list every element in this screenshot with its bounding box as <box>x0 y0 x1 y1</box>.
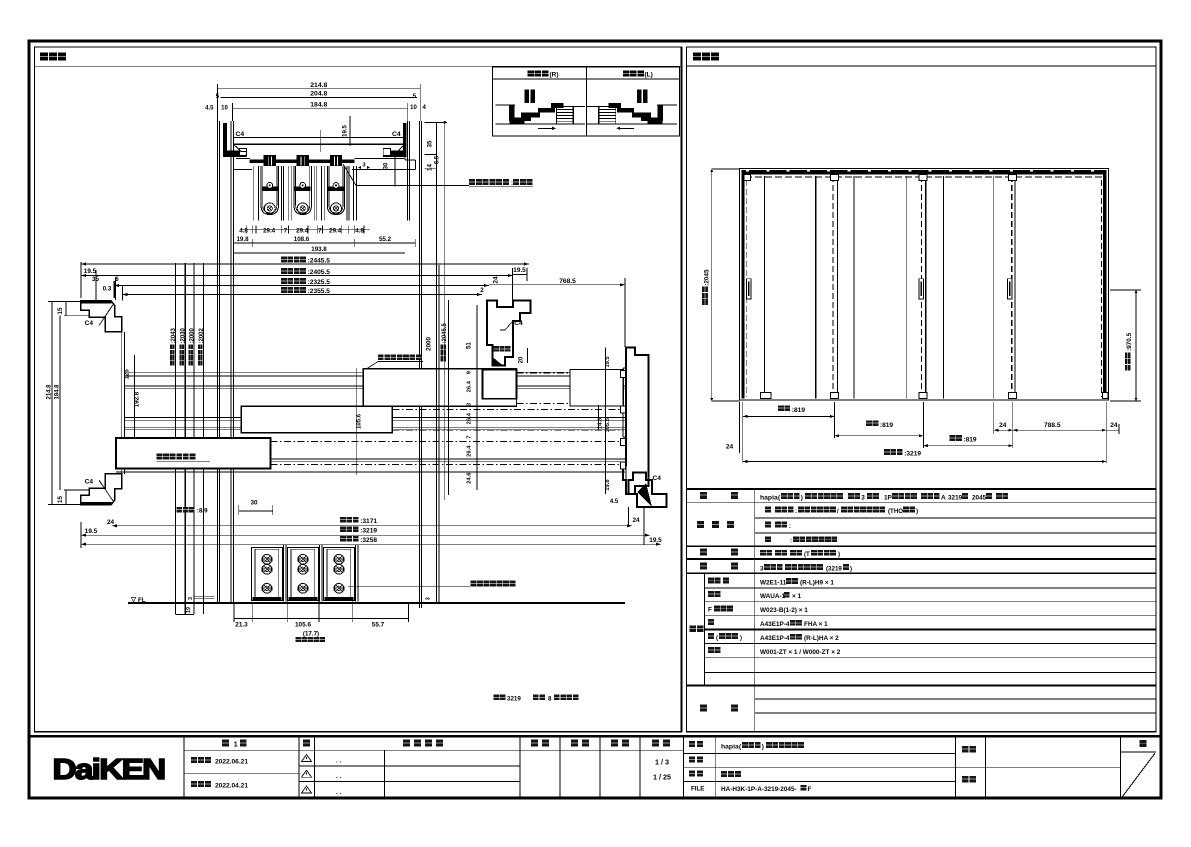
svg-text:788.5: 788.5 <box>1044 422 1061 429</box>
svg-text:105.6: 105.6 <box>357 413 363 429</box>
svg-text:F: F <box>708 607 712 614</box>
svg-text:21.3: 21.3 <box>235 622 248 629</box>
dim 30 inside top assembly <box>394 151 396 186</box>
long dim 2405.5 <box>81 275 513 277</box>
svg-text::8.9: :8.9 <box>197 508 208 515</box>
svg-text:DaiKEN: DaiKEN <box>52 753 164 785</box>
svg-text:24: 24 <box>107 519 115 526</box>
hanger symbol <box>525 89 530 103</box>
svg-text:19.5: 19.5 <box>513 267 526 274</box>
hanger roller unit <box>264 155 276 166</box>
svg-text::2002: :2002 <box>199 327 205 343</box>
svg-text:204.8: 204.8 <box>310 91 327 98</box>
svg-text:(L): (L) <box>645 72 653 79</box>
hanger roller unit <box>297 155 309 166</box>
svg-text:5: 5 <box>413 93 417 100</box>
svg-text:): ) <box>740 635 742 641</box>
center vertical reference line <box>356 368 358 475</box>
dim 15 lower with extensions <box>48 503 81 505</box>
dimension row 193.8 <box>234 252 406 254</box>
svg-text::2445.5: :2445.5 <box>308 257 331 264</box>
spec table label column divider <box>754 489 756 732</box>
svg-text:10: 10 <box>221 106 228 112</box>
door handles <box>746 279 751 299</box>
centerline top assembly <box>319 130 321 152</box>
track lines (plan view rails) <box>125 371 626 373</box>
front view right dimension 引手高:970.5 <box>1135 290 1137 401</box>
long dim 2325.5 <box>114 285 489 287</box>
svg-text::: : <box>511 181 513 187</box>
svg-text:193.8: 193.8 <box>311 246 327 253</box>
svg-text:× 1: × 1 <box>792 593 802 600</box>
detail sketch rail profile <box>495 104 515 106</box>
door frame left thick bar <box>742 170 745 398</box>
title block top separator (thick) <box>29 735 1161 737</box>
svg-text::2355.5: :2355.5 <box>308 288 331 295</box>
label 引手部キャップ leader <box>157 454 163 460</box>
svg-text:3: 3 <box>760 565 764 572</box>
door panel top edges (section hairlines) <box>252 166 254 221</box>
svg-text:hapia: hapia <box>760 494 778 501</box>
svg-text:105.5: 105.5 <box>605 417 611 432</box>
svg-text:30: 30 <box>250 499 258 506</box>
svg-text:26.4: 26.4 <box>467 412 473 424</box>
dim row 幅:819 (2) <box>835 435 924 437</box>
svg-text:24: 24 <box>632 517 640 524</box>
top dimension 184.8 <box>232 107 407 109</box>
svg-text:(: ( <box>716 635 718 641</box>
detail sketch rail profile <box>657 104 677 106</box>
svg-text:19.5: 19.5 <box>649 537 662 544</box>
bottom-right jamb piece with C4 <box>628 472 666 506</box>
担当 label <box>962 776 968 782</box>
svg-text:19.8: 19.8 <box>605 479 611 491</box>
svg-text::2045: :2045 <box>704 269 711 286</box>
svg-text::2030: :2030 <box>180 327 186 343</box>
label 部材 <box>700 563 707 570</box>
svg-text:2: 2 <box>480 287 484 294</box>
svg-text:7: 7 <box>318 227 322 234</box>
right mullion receiving jamb <box>623 347 648 494</box>
dim row 内外幅:3219 <box>743 461 1107 463</box>
dim row 幅:819 (3) <box>923 445 1012 447</box>
wall lines left of top assembly <box>216 121 218 603</box>
svg-text:A43E1P-4: A43E1P-4 <box>760 621 790 628</box>
svg-text:3219: 3219 <box>948 494 963 501</box>
svg-text:F: F <box>808 786 812 793</box>
svg-text:24.6: 24.6 <box>467 472 473 484</box>
spec table outer and row lines <box>687 488 1157 490</box>
label 備考 <box>700 705 707 712</box>
svg-text:184.8: 184.8 <box>310 102 327 109</box>
svg-text:FL: FL <box>138 597 146 604</box>
name rows: 名称/品番/図名/FILE <box>684 753 956 755</box>
改訂履歴 header <box>403 740 410 747</box>
panel 1 hidden continuation dash-dot <box>516 372 623 374</box>
panel 1 handle cap recess <box>483 370 517 399</box>
svg-text:2000: 2000 <box>426 337 433 351</box>
vertical dim lines with rotated height labels <box>175 263 177 614</box>
svg-text::819: :819 <box>963 437 977 444</box>
件名 label <box>962 746 968 752</box>
right mid jamb piece (method jamb with C4) <box>487 300 530 365</box>
arrow tips on long dims <box>81 262 86 265</box>
svg-text:3: 3 <box>426 597 432 600</box>
svg-text:6.5: 6.5 <box>435 155 441 164</box>
svg-text:768.5: 768.5 <box>559 278 576 285</box>
dim 15 upper with extensions <box>48 301 81 303</box>
svg-text:HA-H3K-1P-A-3219-2045-: HA-H3K-1P-A-3219-2045- <box>721 786 797 793</box>
guide caps bottom <box>761 393 772 399</box>
svg-text::2000: :2000 <box>189 327 195 343</box>
top dimension 204.8 <box>221 97 417 99</box>
svg-text:▽: ▽ <box>130 597 137 604</box>
svg-text:(R-L)HA × 2: (R-L)HA × 2 <box>804 635 839 642</box>
svg-text:FILE: FILE <box>691 786 704 793</box>
svg-text:19.5: 19.5 <box>605 355 611 367</box>
svg-text:3: 3 <box>861 494 865 501</box>
top assembly dimension row 4.8/29.4/7/29.4/7/29.4/4.8 <box>246 226 248 234</box>
svg-text:5: 5 <box>216 93 220 100</box>
svg-text:6: 6 <box>115 276 119 283</box>
svg-text:24: 24 <box>726 443 734 450</box>
note ※幅は3219用の場合を示す <box>493 695 499 701</box>
floor line with FL mark <box>128 602 625 604</box>
content 仕上げ 扉框 row <box>765 522 771 528</box>
svg-text:(17.7): (17.7) <box>303 631 319 638</box>
front view bottom dimension rows <box>742 402 744 463</box>
svg-text:4.5: 4.5 <box>205 106 214 112</box>
door panel vertical edges <box>763 176 765 399</box>
rotated label 枠外高さ:2043 <box>170 361 175 366</box>
long dim 内外幅:3219 <box>81 534 650 536</box>
rotated label 取付高:2030 <box>179 361 184 366</box>
svg-text:2022.04.21: 2022.04.21 <box>215 783 248 790</box>
svg-text:29.4: 29.4 <box>263 227 276 234</box>
改訂日 2022.04.21 <box>191 781 197 787</box>
guide caps top <box>744 175 751 181</box>
spec table sub column divider <box>704 573 706 685</box>
small dim 30 <box>239 510 273 512</box>
arrow ticks on front view dims <box>743 415 748 418</box>
svg-text:(THO: (THO <box>888 508 903 515</box>
svg-text::2045.5: :2045.5 <box>442 322 448 343</box>
svg-text::819: :819 <box>880 422 894 429</box>
svg-text:4.8: 4.8 <box>239 227 248 234</box>
svg-text:4.5: 4.5 <box>610 499 619 505</box>
図名 content: 三面図 <box>721 771 727 777</box>
hanger roller unit <box>330 155 342 166</box>
svg-text::819: :819 <box>792 407 806 414</box>
svg-text:): ) <box>762 743 764 750</box>
改訂履歴 row lines and divider <box>314 765 520 767</box>
hidden track dashed line <box>745 176 1103 178</box>
panel 3 hidden continuation <box>271 441 624 443</box>
svg-text:): ) <box>850 565 852 572</box>
label 全閉位置を示す with leader <box>378 355 384 361</box>
dim row 幅:819 (1) <box>743 415 835 417</box>
svg-text::2043: :2043 <box>171 327 177 343</box>
頁 cell with diagonal <box>1140 740 1147 747</box>
left jamb profile lower (mirror) <box>81 474 122 505</box>
left jamb profile upper (vertical frame section) <box>81 301 122 332</box>
upper frame left end bracket <box>223 123 227 154</box>
far-left vertical dim lines 214.8/184.8 <box>51 302 53 505</box>
svg-text:184.8: 184.8 <box>55 384 61 400</box>
long dim 合計幅:3171 <box>112 525 632 527</box>
front view left dimension 内法高:2045 <box>711 169 713 401</box>
svg-text::3219: :3219 <box>904 450 921 457</box>
svg-text:W001-ZT × 1 / W000-ZT ×: W001-ZT × 1 / W000-ZT × 2 <box>760 649 841 656</box>
top dimension 214.8 <box>217 88 420 90</box>
svg-text:WAUA-1: WAUA-1 <box>760 593 786 600</box>
door panel 1 (plan, dashed outline) <box>363 369 516 407</box>
dimension row 19.8 / 108.6 / 55.2 <box>234 242 416 244</box>
svg-text:C4: C4 <box>85 479 94 486</box>
svg-text:FHA × 1: FHA × 1 <box>804 621 828 628</box>
svg-text:214.8: 214.8 <box>47 384 53 400</box>
svg-text:(T: (T <box>804 551 810 558</box>
svg-text:51: 51 <box>466 342 473 349</box>
svg-text:C4: C4 <box>514 320 523 327</box>
svg-text:7: 7 <box>467 436 473 439</box>
svg-text:1: 1 <box>234 742 238 749</box>
label 仕上げ <box>697 521 704 528</box>
label 把手 <box>700 549 707 556</box>
svg-text::3219: :3219 <box>360 527 377 534</box>
door panel 2 (plan) <box>241 406 392 433</box>
content 仕上げ 扉パネル row <box>765 507 771 513</box>
svg-text::: : <box>789 524 791 530</box>
svg-text:1 / 25: 1 / 25 <box>653 773 671 782</box>
svg-text:30: 30 <box>384 162 390 169</box>
long dim 内法高+開口高:2445.5 <box>81 263 529 265</box>
svg-text:2045: 2045 <box>972 494 987 501</box>
front view title 正面図 <box>693 53 701 61</box>
第1版 cell <box>222 740 229 747</box>
svg-text:C4: C4 <box>653 475 662 482</box>
label 型式 <box>700 492 707 499</box>
svg-text::3171: :3171 <box>360 518 377 525</box>
label 右引(R) <box>528 70 534 76</box>
svg-text:19.8: 19.8 <box>236 236 249 243</box>
svg-text:29.4: 29.4 <box>296 227 309 234</box>
確認 header <box>571 740 578 747</box>
door frame outer rect <box>740 169 1109 401</box>
hanger symbol <box>643 89 648 103</box>
left panel frame (section view 断面図) <box>35 47 682 732</box>
label 品番 <box>690 626 697 633</box>
svg-text::2405.5: :2405.5 <box>308 269 331 276</box>
svg-text:3: 3 <box>188 597 194 600</box>
rail housing body <box>250 159 355 163</box>
svg-text:14.8: 14.8 <box>598 417 604 429</box>
版 column with revision triangles <box>303 740 310 747</box>
rotated label 内法高:2000 <box>188 361 193 366</box>
right panel frame (front view 正面図) <box>687 47 1157 732</box>
縮尺 header <box>652 740 659 747</box>
dim row 24/788.5/24 (right) <box>994 429 1119 431</box>
door panel 3 (plan, solid with handle cap) <box>116 438 271 469</box>
extension lines upper-left jamb dims <box>95 270 97 300</box>
svg-text:108.6: 108.6 <box>294 236 310 243</box>
sub labels 縦枠/上枠/Fレール/扉/扉(引手面)/引手 <box>708 577 714 583</box>
upper frame right end bracket <box>403 123 407 154</box>
title block header row line <box>184 749 684 751</box>
svg-text:15: 15 <box>57 307 64 314</box>
svg-text:): ) <box>801 494 803 501</box>
rotated label 開口高:2045.5 <box>441 356 446 361</box>
floor dims 21.3 / 105.6 / 55.7 <box>233 603 235 622</box>
svg-text:19.5: 19.5 <box>85 528 98 535</box>
svg-text::: : <box>790 539 792 545</box>
svg-text:19.5: 19.5 <box>343 125 349 137</box>
svg-text:4.8: 4.8 <box>355 227 364 234</box>
slide direction arrow <box>619 127 634 129</box>
small dim 19 below floor left <box>176 614 195 616</box>
svg-text:1P: 1P <box>884 494 893 501</box>
svg-text:A43E1P-4: A43E1P-4 <box>760 635 790 642</box>
svg-text:C4: C4 <box>85 320 94 327</box>
svg-text::970.5: :970.5 <box>1126 332 1133 351</box>
svg-text:35: 35 <box>427 140 434 147</box>
svg-text:19: 19 <box>186 607 192 613</box>
flat rail leader フラットレール <box>348 585 470 587</box>
svg-text:7: 7 <box>284 227 288 234</box>
svg-text:24: 24 <box>999 422 1007 429</box>
hanger rail leader line 吊車レール <box>343 164 469 185</box>
svg-text:): ) <box>838 551 840 558</box>
content 仕上げ 枠 row <box>765 536 771 542</box>
svg-text:0.3: 0.3 <box>103 286 112 293</box>
door frame right panel edge thick bar <box>1103 170 1107 398</box>
svg-text:): ) <box>916 508 918 515</box>
slide direction arrow <box>538 127 553 129</box>
svg-text:C4: C4 <box>236 131 245 138</box>
floor guide unit <box>287 547 318 600</box>
section view title 断面図 <box>40 53 48 61</box>
door frame top thick bar <box>742 170 1107 174</box>
svg-text:8: 8 <box>548 696 552 703</box>
svg-text:C4: C4 <box>392 131 401 138</box>
svg-text:2022.06.21: 2022.06.21 <box>215 759 248 766</box>
floor guide unit <box>323 547 354 600</box>
セヘア small text <box>494 346 499 351</box>
svg-text:26.4: 26.4 <box>467 445 473 457</box>
svg-text:(3219: (3219 <box>826 565 842 572</box>
svg-text::3258: :3258 <box>360 537 377 544</box>
svg-text:214.8: 214.8 <box>310 82 327 89</box>
svg-text:1 / 3: 1 / 3 <box>655 758 669 767</box>
title block vertical dividers <box>183 736 185 797</box>
svg-text:(R-L)H9 × 1: (R-L)H9 × 1 <box>800 579 834 586</box>
long dim 取付幅:3258 <box>81 543 661 545</box>
svg-text:14: 14 <box>427 164 434 171</box>
upper frame 上枠 profile <box>234 137 405 139</box>
svg-text:24: 24 <box>1110 422 1118 429</box>
panel 2 hidden continuation <box>392 409 623 411</box>
wall lines right of top assembly <box>407 121 409 221</box>
svg-text:26.4: 26.4 <box>467 380 473 392</box>
svg-text:15: 15 <box>57 496 64 503</box>
long dim 2355.5 <box>122 294 482 296</box>
承認 header <box>531 740 538 747</box>
svg-text:55.7: 55.7 <box>372 622 385 629</box>
作成 header <box>611 740 618 747</box>
detail boxes 右引(R)/左引(L) <box>493 67 680 136</box>
rotated label 有効高:2002 <box>198 361 203 366</box>
svg-text::: : <box>795 509 797 515</box>
floor guide unit <box>251 547 282 600</box>
rotated dims 19.5 / 105.5 / 14.8 / 19.8 at mullion <box>605 347 607 494</box>
svg-text:55.2: 55.2 <box>379 236 392 243</box>
svg-text:3219: 3219 <box>507 696 521 703</box>
svg-text:. .: . . <box>336 773 342 780</box>
svg-text::2325.5: :2325.5 <box>308 279 331 286</box>
svg-text:W2E1-11: W2E1-11 <box>760 579 787 586</box>
label 左引(L) <box>623 70 629 76</box>
svg-text:hapia: hapia <box>721 743 739 750</box>
svg-text:105.6: 105.6 <box>295 622 311 629</box>
svg-text:20: 20 <box>519 356 525 363</box>
svg-text:. .: . . <box>336 789 342 796</box>
mullion stub squares at panel rows <box>621 371 626 378</box>
panel divider line <box>680 47 682 732</box>
svg-text:W023-B(1-2) × 1: W023-B(1-2) × 1 <box>760 607 808 614</box>
svg-text:. .: . . <box>336 758 342 765</box>
svg-text:(R): (R) <box>550 72 559 79</box>
dim 19.5 inside top assembly <box>349 116 351 146</box>
left extension verticals for long dims <box>80 262 82 298</box>
right wall verticals (middle band) <box>436 122 438 603</box>
制定日 2022.06.21 <box>191 757 197 763</box>
svg-text:A: A <box>941 494 946 501</box>
svg-text:24: 24 <box>493 276 500 283</box>
panel bottom edge hairlines at floor <box>230 545 232 602</box>
svg-text:10: 10 <box>410 105 417 111</box>
svg-text:29.4: 29.4 <box>329 227 342 234</box>
content 把手 row <box>760 550 766 556</box>
